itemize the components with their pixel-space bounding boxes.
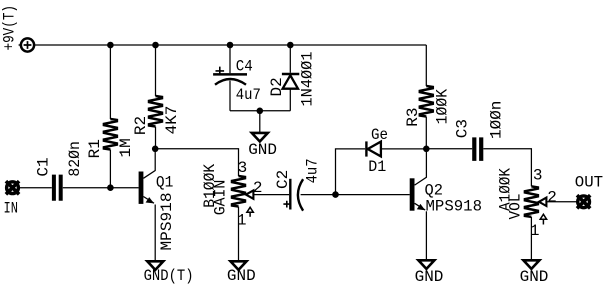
power source +9V terminal xyxy=(19,38,34,51)
svg-text:C1: C1 xyxy=(34,157,52,176)
svg-text:1N4ØØ1: 1N4ØØ1 xyxy=(298,52,316,107)
svg-text:82Øn: 82Øn xyxy=(66,141,84,177)
svg-text:IN: IN xyxy=(4,200,19,218)
label GND (C4) xyxy=(248,141,277,159)
label IN xyxy=(4,200,19,218)
output terminal OUT xyxy=(577,195,590,208)
wire node to C3 xyxy=(426,148,472,150)
value 1M xyxy=(117,138,135,157)
net label +9V(T) xyxy=(0,5,18,51)
resistor R1 xyxy=(104,45,117,188)
value 100n xyxy=(487,101,505,139)
input terminal IN xyxy=(6,181,19,194)
pin 3 (GAIN) xyxy=(238,159,248,177)
svg-text:R3: R3 xyxy=(404,107,422,126)
svg-text:GND(T): GND(T) xyxy=(144,267,194,285)
potentiometer VOL A100K xyxy=(525,186,547,260)
label Q2 xyxy=(425,181,444,199)
svg-text:1ØØn: 1ØØn xyxy=(487,101,505,139)
transistor Q2 xyxy=(412,149,426,261)
value MPS918 (Q1) xyxy=(158,193,176,251)
node rail-D2 xyxy=(287,42,294,49)
resistor R3 xyxy=(420,45,433,149)
ground below C4/D2 xyxy=(252,133,268,142)
svg-text:4u7: 4u7 xyxy=(236,86,261,104)
ground below VOL xyxy=(523,260,539,269)
potentiometer GAIN B100K xyxy=(232,176,253,261)
svg-text:D2: D2 xyxy=(268,77,286,96)
wire C3 to VOL pot xyxy=(483,149,531,187)
wire GAIN wiper to C2 xyxy=(253,194,289,196)
svg-text:GND: GND xyxy=(227,267,256,285)
label GAIN xyxy=(211,180,229,216)
value 1N4001 xyxy=(298,52,316,107)
svg-text:OUT: OUT xyxy=(575,173,603,191)
svg-text:3: 3 xyxy=(238,159,248,177)
value 820n xyxy=(66,141,84,177)
svg-text:1ØØK: 1ØØK xyxy=(433,89,451,125)
node Q1 collector xyxy=(152,146,159,153)
svg-text:GAIN: GAIN xyxy=(211,180,229,216)
capacitor C2 xyxy=(290,179,303,211)
label D1 xyxy=(368,158,386,176)
label VOL xyxy=(506,194,524,220)
label D2 xyxy=(268,77,286,96)
wire C4-D2 bottom xyxy=(230,110,290,112)
value 4K7 xyxy=(163,106,181,135)
label B100K xyxy=(201,163,219,207)
plus mark C4 xyxy=(216,67,225,76)
plus mark C2 xyxy=(283,201,290,208)
value 100K xyxy=(433,89,451,125)
pin 1 (VOL) xyxy=(530,222,540,240)
pin 2 (VOL) xyxy=(547,188,557,206)
capacitor C4 xyxy=(213,45,247,111)
label GND (Q2) xyxy=(415,268,444,286)
node C2-D1-Q2 xyxy=(332,191,339,198)
svg-text:R2: R2 xyxy=(132,116,150,135)
value 4u7 (C4) xyxy=(236,86,261,104)
svg-text:GND: GND xyxy=(415,268,444,286)
pin 3 (VOL) xyxy=(533,166,543,184)
svg-text:+9V(T): +9V(T) xyxy=(0,5,18,51)
capacitor C3 xyxy=(474,137,481,161)
label C3 xyxy=(454,119,472,138)
capacitor C1 xyxy=(54,175,61,201)
label GND (GAIN) xyxy=(227,267,256,285)
wire node up to D1 xyxy=(336,149,366,195)
label C1 xyxy=(34,157,52,176)
wire Q1 collector to GAIN pot xyxy=(155,149,238,176)
label GND (VOL) xyxy=(520,268,549,286)
ground below Q2 xyxy=(418,260,434,269)
svg-text:3: 3 xyxy=(533,166,543,184)
label R3 xyxy=(404,107,422,126)
node C1-R1-Q1 xyxy=(107,184,114,191)
label R2 xyxy=(132,116,150,135)
label Ge xyxy=(371,126,388,144)
resistor R2 xyxy=(149,45,162,149)
wire C1 to Q1 base xyxy=(63,187,139,189)
svg-text:1: 1 xyxy=(530,222,540,240)
value 4u7 (C2) xyxy=(304,158,322,183)
svg-text:C2: C2 xyxy=(274,170,292,189)
label R1 xyxy=(86,139,104,158)
svg-text:C3: C3 xyxy=(454,119,472,138)
svg-text:MPS918: MPS918 xyxy=(158,193,176,251)
diode D2 xyxy=(282,45,299,111)
svg-text:2: 2 xyxy=(547,188,557,206)
svg-text:MPS918: MPS918 xyxy=(426,197,483,215)
svg-text:4u7: 4u7 xyxy=(304,158,322,183)
wire IN to C1 xyxy=(19,187,52,189)
svg-text:4K7: 4K7 xyxy=(163,106,181,135)
ground below GAIN xyxy=(231,261,247,270)
svg-text:D1: D1 xyxy=(368,158,386,176)
pin 1 (GAIN) xyxy=(237,211,247,229)
svg-text:1M: 1M xyxy=(117,138,135,157)
value MPS918 (Q2) xyxy=(426,197,483,215)
diode D1 Ge xyxy=(366,141,426,156)
svg-text:1: 1 xyxy=(237,211,247,229)
wire VOL wiper to OUT xyxy=(546,201,576,203)
label OUT xyxy=(575,173,603,191)
label GND(T) xyxy=(144,267,194,285)
svg-text:C4: C4 xyxy=(236,58,253,76)
svg-text:VOL: VOL xyxy=(506,194,524,220)
label C2 xyxy=(274,170,292,189)
node rail-R1 xyxy=(107,42,114,49)
wire C2 to Q2 base xyxy=(301,194,410,196)
ground GND(T) xyxy=(147,261,163,270)
label C4 xyxy=(236,58,253,76)
svg-text:Ge: Ge xyxy=(371,126,388,144)
svg-text:Q1: Q1 xyxy=(156,174,174,192)
svg-text:GND: GND xyxy=(520,268,549,286)
node rail-C4 xyxy=(227,42,234,49)
node rail-R2 xyxy=(152,42,159,49)
pin 2 (GAIN) xyxy=(253,179,263,197)
svg-text:GND: GND xyxy=(248,141,277,159)
wire to ground xyxy=(259,111,261,133)
wire power rail xyxy=(35,44,426,46)
label A100K xyxy=(496,168,514,211)
svg-text:R1: R1 xyxy=(86,139,104,158)
node bottom-GND xyxy=(257,108,264,115)
node R3-D1-C3-Q2 xyxy=(423,146,430,153)
label Q1 xyxy=(156,174,174,192)
transistor Q1 xyxy=(141,149,155,262)
